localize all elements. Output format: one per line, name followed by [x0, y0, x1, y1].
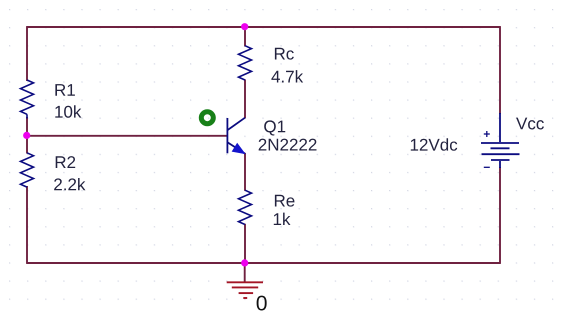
- battery plus sign: [484, 131, 490, 137]
- resistor Re: [239, 190, 252, 224]
- wire: left vertical, R2 bottom to bottom rail: [26, 186, 28, 264]
- junction node: R1/R2 divider / base: [23, 132, 30, 139]
- value 10k: [55, 105, 81, 117]
- wire: bottom horizontal ground rail: [27, 262, 501, 264]
- net label Vcc: [516, 118, 544, 130]
- junction node: top rail / Rc: [241, 23, 248, 30]
- wire: left vertical, R1 bottom to R2 top (through base node): [26, 117, 28, 154]
- wire: base wire from divider node to Q1 base: [27, 135, 227, 137]
- wire: Re bottom to bottom rail: [244, 224, 246, 263]
- label Q1: [264, 120, 285, 135]
- wire: right vertical, battery - pin down to bottom rail: [499, 167, 501, 264]
- ground net 0: [257, 296, 267, 311]
- label R2: [56, 156, 75, 168]
- value 1k: [274, 213, 291, 225]
- wire: Q1 emitter to Re top: [244, 153, 246, 191]
- ground symbol: [227, 282, 263, 298]
- green bias marker ring: [201, 112, 213, 124]
- resistor R2: [21, 153, 34, 187]
- resistor Rc: [239, 46, 252, 80]
- Q1 emitter arrowhead: [232, 144, 244, 154]
- label Re: [275, 195, 295, 207]
- wire: Rc branch from top rail to Rc top: [244, 27, 246, 47]
- resistor R1: [21, 80, 34, 119]
- label Rc: [275, 48, 294, 60]
- battery V1 plates: [481, 113, 520, 168]
- value 12Vdc: [411, 138, 457, 150]
- wire: ground stub below bottom rail: [244, 263, 246, 282]
- label R1: [55, 84, 75, 96]
- wire: Rc bottom to Q1 collector: [244, 80, 246, 119]
- value 2N2222: [259, 139, 317, 151]
- value 4.7k: [271, 70, 303, 82]
- transistor Q1: [227, 118, 245, 154]
- value 2.2k: [54, 178, 85, 190]
- battery minus sign: [484, 166, 490, 168]
- wire: top horizontal Vcc rail: [27, 26, 501, 28]
- wire: right vertical, top corner down to battery + pin: [499, 26, 501, 114]
- wire: left vertical, top corner to R1: [26, 26, 28, 81]
- junction node: bottom rail / ground: [241, 259, 248, 266]
